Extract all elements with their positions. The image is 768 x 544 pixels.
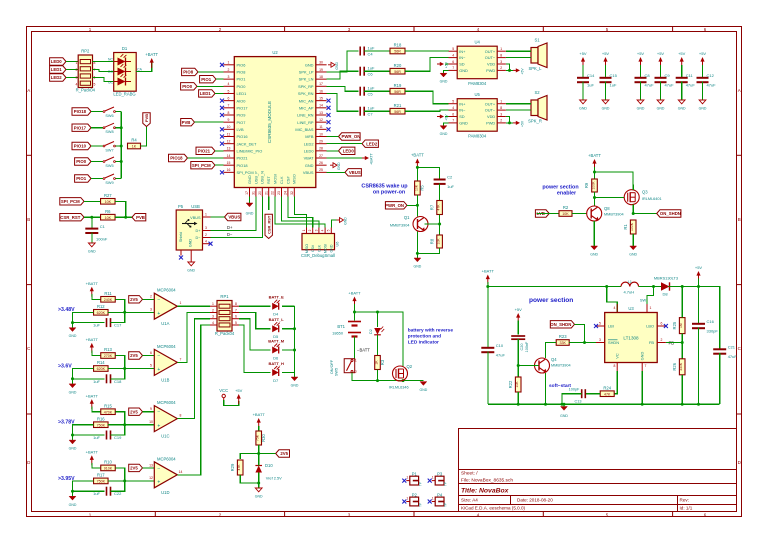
no-connect: [220, 106, 224, 110]
svg-text:U3: U3: [628, 306, 634, 311]
global label LED2: [362, 140, 378, 147]
svg-text:C4: C4: [368, 52, 374, 57]
resistor R30: [256, 431, 266, 445]
resistor R5: [414, 181, 424, 195]
svg-text:PIO21: PIO21: [198, 149, 211, 154]
svg-text:R11: R11: [104, 291, 112, 296]
svg-text:LED1: LED1: [51, 67, 63, 72]
svg-text:R14: R14: [97, 360, 105, 365]
op-amp U1B: [154, 344, 177, 383]
svg-text:14: 14: [227, 154, 231, 158]
svg-text:56R: 56R: [394, 70, 401, 74]
wire: [211, 197, 263, 238]
svg-text:4: 4: [452, 53, 454, 57]
svg-text:MOSI: MOSI: [273, 174, 278, 184]
capacitor C10: [481, 343, 505, 358]
wire: [73, 312, 105, 322]
wire: [640, 82, 642, 100]
junction: [517, 403, 520, 406]
svg-text:LED2: LED2: [366, 141, 378, 146]
svg-text:R21: R21: [394, 103, 402, 108]
svg-text:D+: D+: [227, 225, 233, 230]
wire: [364, 110, 390, 112]
svg-text:VBUS: VBUS: [303, 170, 314, 175]
svg-text:4: 4: [614, 306, 616, 310]
svg-text:R_Pack04: R_Pack04: [215, 331, 235, 336]
wire: [66, 61, 78, 63]
svg-text:1uF: 1uF: [587, 83, 594, 88]
junction: [681, 285, 684, 288]
wire: [517, 339, 519, 376]
wire: [327, 171, 345, 173]
ground: [699, 100, 707, 111]
wire: [439, 215, 441, 235]
wire: [143, 411, 155, 413]
wire: [537, 213, 560, 215]
no-connect: [327, 106, 331, 110]
ground: [88, 243, 96, 254]
global label CSR_RST vertical: [265, 214, 272, 238]
svg-text:GND: GND: [637, 107, 645, 111]
ground: [69, 496, 77, 507]
switch SW6: [103, 107, 115, 118]
wire: [593, 221, 595, 246]
wire: [294, 306, 296, 377]
svg-text:13: 13: [319, 111, 323, 115]
svg-text:GND: GND: [414, 265, 422, 269]
svg-text:D2: D2: [369, 329, 373, 334]
svg-text:8: 8: [500, 106, 502, 110]
svg-text:2: 2: [355, 370, 357, 374]
transistor Q1: [413, 217, 428, 232]
svg-text:JACK_DET: JACK_DET: [237, 141, 258, 146]
wire: [66, 69, 78, 71]
svg-text:LED1: LED1: [200, 91, 212, 96]
power +BATT: [588, 153, 601, 169]
wire: [92, 463, 101, 468]
svg-text:GND: GND: [640, 351, 645, 360]
svg-text:47uF: 47uF: [707, 83, 717, 88]
wire: [73, 481, 105, 491]
svg-text:7: 7: [452, 119, 454, 123]
wire: [417, 167, 439, 178]
svg-text:LVB: LVB: [237, 127, 244, 132]
svg-text:10K: 10K: [437, 238, 441, 245]
svg-text:OUT−: OUT−: [485, 108, 496, 113]
power +5V: [579, 51, 587, 67]
ground: [678, 100, 686, 111]
svg-text:29: 29: [319, 139, 323, 143]
svg-text:1: 1: [228, 61, 230, 65]
svg-text:26: 26: [319, 161, 323, 165]
global label PIO18: [72, 108, 91, 115]
resistor R23: [556, 334, 569, 345]
global label PWR_ON: [339, 133, 361, 140]
wire: [594, 192, 596, 206]
ground: [590, 246, 598, 257]
power +5V: [437, 61, 449, 68]
svg-text:MISO: MISO: [292, 174, 297, 184]
svg-text:1: 1: [650, 306, 652, 310]
wire: [215, 164, 224, 166]
led D6: [268, 339, 285, 361]
svg-text:+BATT: +BATT: [86, 450, 99, 455]
wire: [562, 394, 582, 405]
capacitor C17: [93, 318, 122, 328]
svg-text:+5V: +5V: [602, 51, 610, 56]
capacitor C7: [360, 107, 364, 116]
ground: [255, 488, 263, 499]
svg-text:+BATT: +BATT: [86, 393, 99, 398]
resistor pack RP2: [78, 55, 92, 88]
resistor R3: [375, 356, 385, 370]
svg-text:32: 32: [290, 191, 294, 195]
svg-text:GND: GND: [189, 239, 193, 248]
global label 2V5: [129, 464, 143, 471]
svg-text:LED indicator: LED indicator: [408, 340, 439, 346]
junction: [517, 364, 520, 367]
speaker S2: [531, 100, 538, 116]
svg-text:Vref 2.5V: Vref 2.5V: [266, 476, 282, 481]
switch SW5 ON/OFF: [351, 360, 353, 362]
svg-text:PIO8: PIO8: [237, 70, 246, 75]
svg-text:PIO10: PIO10: [74, 144, 87, 149]
svg-text:IN+: IN+: [459, 101, 466, 106]
svg-text:620K: 620K: [97, 367, 106, 371]
global label SPI_PCM: [191, 161, 215, 168]
wire: [143, 355, 155, 357]
power +5V: [657, 51, 665, 67]
svg-text:+5V: +5V: [637, 51, 645, 56]
ground: [602, 100, 610, 111]
svg-text:PIO18: PIO18: [237, 163, 248, 168]
svg-text:2: 2: [228, 68, 230, 72]
svg-text:1uF: 1uF: [93, 379, 100, 384]
svg-text:17: 17: [319, 82, 323, 86]
global label LED1: [199, 90, 215, 97]
junction: [508, 121, 511, 124]
svg-text:C18: C18: [114, 379, 122, 384]
junction: [71, 490, 74, 493]
svg-text:MBRS130LT3: MBRS130LT3: [654, 276, 678, 281]
global label 2V5: [276, 450, 290, 457]
svg-text:R19: R19: [394, 83, 402, 88]
svg-text:U6: U6: [336, 242, 340, 247]
svg-text:2: 2: [661, 338, 663, 342]
wire: [91, 217, 93, 228]
ground: [579, 100, 587, 111]
resistor R17: [94, 473, 109, 484]
svg-text:1: 1: [76, 61, 78, 65]
svg-text:1: 1: [355, 359, 357, 363]
wire: [633, 213, 657, 215]
wire: [605, 65, 607, 78]
svg-text:C13: C13: [575, 400, 582, 404]
power +BATT: [86, 281, 99, 297]
capacitor C12: [697, 73, 717, 88]
diode D10: [255, 463, 282, 481]
svg-text:GND: GND: [440, 132, 448, 136]
svg-text:GND: GND: [330, 244, 334, 252]
wire: [93, 78, 114, 82]
svg-text:LED1: LED1: [237, 91, 247, 96]
no-connect: [327, 99, 331, 103]
capacitor C14: [577, 73, 595, 88]
transistor Q4 MMBT3904: [535, 357, 571, 373]
wire: [632, 205, 634, 214]
wire: [594, 167, 596, 179]
ground: [69, 328, 77, 339]
svg-text:U2: U2: [272, 50, 278, 55]
svg-text:3: 3: [205, 226, 207, 230]
wire: [506, 50, 531, 52]
IC U2 CSR8635_MODULE: [234, 57, 315, 188]
svg-text:+BATT: +BATT: [348, 291, 361, 296]
svg-text:CSR_RST: CSR_RST: [60, 215, 80, 220]
capacitor C21: [713, 345, 737, 360]
svg-text:NC: NC: [108, 58, 113, 62]
svg-text:6: 6: [661, 322, 663, 326]
no-connect: [594, 324, 598, 328]
wire: [327, 136, 339, 138]
wire: [91, 145, 103, 147]
resistor R1: [623, 220, 636, 234]
junction: [376, 379, 379, 382]
svg-text:battery with reverse: battery with reverse: [408, 328, 454, 334]
svg-text:PVB: PVB: [136, 215, 145, 220]
wire: [108, 311, 154, 313]
svg-text:ON/OFF: ON/OFF: [330, 359, 334, 374]
global label PVB vertical: [143, 113, 150, 127]
svg-text:LED_RABG: LED_RABG: [113, 92, 135, 97]
svg-text:MCP6004: MCP6004: [157, 344, 176, 349]
no-connect: [220, 142, 224, 146]
switch SW9: [103, 174, 115, 185]
svg-text:PIO6: PIO6: [237, 62, 246, 67]
svg-text:C6: C6: [368, 72, 374, 77]
svg-text:D10: D10: [265, 463, 273, 468]
svg-text:+BATT: +BATT: [86, 281, 99, 286]
wire: [632, 234, 634, 246]
wire: [518, 365, 538, 367]
svg-text:SPI_PCM: SPI_PCM: [192, 163, 211, 168]
wire: [506, 109, 531, 111]
junction: [376, 311, 379, 314]
svg-text:GND: GND: [420, 388, 428, 392]
wire: [198, 71, 224, 73]
resistor R6: [101, 209, 116, 220]
svg-text:TP: TP: [444, 482, 448, 486]
svg-text:+BATT: +BATT: [370, 153, 374, 165]
svg-text:C21: C21: [728, 345, 736, 350]
svg-text:7: 7: [228, 104, 230, 108]
global label PIO1: [75, 175, 91, 182]
svg-text:10: 10: [227, 125, 231, 129]
svg-text:10K: 10K: [105, 200, 112, 204]
svg-text:LED2: LED2: [304, 141, 314, 146]
junction: [123, 311, 126, 314]
svg-text:2V5: 2V5: [130, 409, 138, 414]
svg-text:MIC_AN: MIC_AN: [299, 98, 314, 103]
svg-text:R_Pack04: R_Pack04: [76, 88, 96, 93]
wire: [66, 77, 78, 79]
svg-text:4: 4: [321, 229, 325, 231]
svg-text:D−: D−: [227, 232, 233, 237]
svg-text:CS#: CS#: [311, 245, 315, 252]
svg-text:750K: 750K: [97, 423, 106, 427]
no-connect: [220, 135, 224, 139]
resistor R7: [429, 201, 442, 215]
svg-text:MIC_BIAS: MIC_BIAS: [295, 127, 314, 132]
svg-text:1uF: 1uF: [447, 184, 454, 189]
svg-text:PIO7: PIO7: [237, 120, 246, 125]
svg-text:SW9: SW9: [105, 181, 113, 185]
svg-text:2: 2: [150, 295, 152, 299]
svg-text:1: 1: [212, 302, 214, 306]
svg-text:C11: C11: [686, 73, 694, 78]
svg-text:47K: 47K: [604, 392, 611, 396]
svg-text:CSR8635_MODULE: CSR8635_MODULE: [267, 101, 272, 143]
wire: [111, 312, 125, 322]
svg-text:CS#: CS#: [285, 176, 290, 184]
svg-text:GND: GND: [459, 121, 468, 126]
svg-text:2: 2: [205, 233, 207, 237]
svg-text:C7: C7: [368, 112, 374, 117]
wire: [91, 233, 93, 244]
svg-text:+: +: [157, 311, 160, 317]
power +5V: [437, 114, 449, 121]
svg-text:9: 9: [228, 118, 230, 122]
svg-text:22: 22: [271, 191, 275, 195]
svg-text:D1: D1: [122, 46, 128, 51]
svg-text:14: 14: [179, 470, 183, 474]
svg-text:Rev:: Rev:: [680, 498, 689, 503]
wire: [487, 282, 489, 347]
svg-text:1: 1: [302, 229, 306, 231]
svg-text:MOSI: MOSI: [324, 244, 328, 253]
junction: [123, 367, 126, 370]
svg-text:3: 3: [228, 75, 230, 79]
svg-text:BATT_L: BATT_L: [269, 317, 285, 322]
global label 2V5: [129, 352, 143, 359]
power +BATT: [253, 412, 266, 428]
wire: [669, 287, 720, 349]
svg-text:R5: R5: [420, 185, 425, 191]
svg-text:on power-on: on power-on: [373, 190, 405, 196]
svg-text:LT1308: LT1308: [623, 336, 639, 341]
svg-text:R7: R7: [429, 204, 434, 210]
svg-text:GND: GND: [579, 107, 587, 111]
wire: [111, 481, 125, 491]
junction: [71, 434, 74, 437]
svg-text:47uF: 47uF: [686, 83, 696, 88]
svg-text:C19: C19: [114, 435, 122, 440]
resistor R10: [101, 460, 116, 471]
svg-text:R23: R23: [559, 334, 567, 339]
wire: [407, 204, 417, 206]
wire: [545, 373, 547, 404]
junction: [71, 321, 74, 324]
wire: [681, 287, 683, 318]
wire: [211, 197, 256, 231]
svg-text:MCP6004: MCP6004: [157, 456, 176, 461]
svg-text:+5V: +5V: [445, 114, 449, 121]
svg-text:+5V: +5V: [235, 388, 243, 393]
junction: [123, 479, 126, 482]
svg-text:R17: R17: [97, 473, 105, 478]
wire: [377, 335, 379, 356]
svg-text:16: 16: [319, 89, 323, 93]
svg-text:B: B: [27, 217, 30, 222]
svg-text:PWD: PWD: [486, 68, 495, 73]
wire: [258, 473, 260, 489]
wire: [177, 319, 210, 419]
junction: [124, 216, 127, 219]
svg-text:3: 3: [150, 308, 152, 312]
svg-text:FB: FB: [649, 340, 654, 345]
junction: [563, 403, 566, 406]
battery BT1 18650: [348, 321, 361, 323]
svg-text:56R: 56R: [394, 50, 401, 54]
svg-text:10: 10: [149, 420, 153, 424]
svg-text:MMBT3904: MMBT3904: [551, 364, 571, 368]
power +5V: [515, 307, 523, 323]
svg-text:1: 1: [205, 213, 207, 217]
svg-text:1K: 1K: [375, 360, 379, 365]
svg-text:MIC_AP: MIC_AP: [299, 105, 314, 110]
wire: [510, 69, 514, 71]
power +BATT: [86, 337, 99, 353]
transistor Q2 IRLML6346: [393, 366, 408, 381]
power +BATT: [411, 153, 424, 169]
svg-text:7: 7: [452, 66, 454, 70]
led D5: [269, 317, 285, 339]
svg-text:7: 7: [180, 357, 182, 361]
global label ON_SHDN: [657, 210, 681, 217]
wire: [143, 298, 155, 300]
wire: [240, 475, 259, 483]
svg-text:1: 1: [432, 497, 434, 501]
svg-text:D7: D7: [273, 378, 279, 383]
svg-text:12: 12: [227, 139, 231, 143]
IC U4 PAM8304: [457, 46, 497, 78]
svg-text:2: 2: [212, 308, 214, 312]
svg-text:6: 6: [452, 60, 454, 64]
resistor R16: [94, 416, 109, 427]
ground: [291, 377, 299, 388]
svg-text:U1C: U1C: [161, 434, 169, 439]
wire: [239, 313, 271, 329]
op-amp U1A: [154, 288, 177, 327]
svg-text:5: 5: [599, 322, 601, 326]
svg-text:SPI_PCM: SPI_PCM: [61, 199, 80, 204]
capacitor C13: [569, 388, 586, 404]
svg-text:910K: 910K: [104, 467, 113, 471]
wire: [197, 85, 224, 87]
wire: [488, 286, 621, 288]
svg-text:1: 1: [406, 497, 408, 501]
led D2: [369, 327, 384, 335]
svg-text:enabler: enabler: [557, 191, 577, 197]
wire: [405, 110, 449, 111]
wire: [582, 65, 584, 78]
svg-text:C8: C8: [645, 73, 651, 78]
transistor Q3 IRLML6401: [624, 190, 639, 205]
wire: [641, 371, 643, 404]
wire: [249, 197, 251, 204]
svg-text:BT1: BT1: [337, 324, 345, 329]
wire: [136, 62, 152, 72]
